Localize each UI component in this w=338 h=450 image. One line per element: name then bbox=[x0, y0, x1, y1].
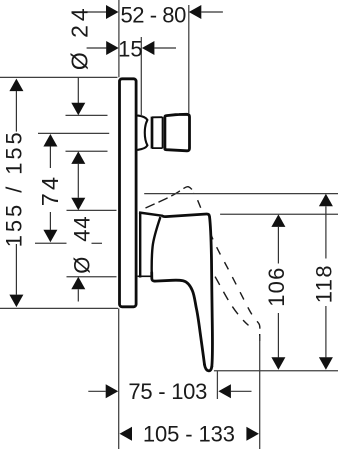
sleeve front cone edge bbox=[152, 217, 161, 273]
lever silhouette (hides dashed lines behind solid handle) bbox=[138, 212, 212, 370]
dimension 106 bbox=[264, 214, 289, 369]
ext line sleeve dia bottom bbox=[67, 276, 117, 278]
svg-text:106: 106 bbox=[264, 266, 289, 306]
dimension 52-80 bbox=[87, 2, 223, 27]
svg-text:Ø 24: Ø 24 bbox=[66, 4, 92, 70]
svg-text:105 - 133: 105 - 133 bbox=[143, 422, 235, 447]
arrow left 15 bbox=[87, 47, 107, 49]
dimension 118 bbox=[311, 194, 336, 370]
dashed raised-lever grip inner edge bbox=[211, 270, 249, 326]
dashed raised-lever front edge descending bbox=[194, 192, 260, 341]
dimension 15 bbox=[87, 37, 176, 62]
ext line raised tip vertical bbox=[259, 336, 261, 449]
arrow left 52-80 bbox=[87, 11, 107, 13]
sleeve top edge bbox=[139, 213, 163, 216]
svg-text:155 / 155: 155 / 155 bbox=[2, 129, 27, 247]
dimension 155/155 bbox=[2, 79, 27, 308]
ext line 74 top bbox=[38, 132, 109, 134]
ext line wall face top bbox=[118, 0, 120, 77]
ext line knob collar bbox=[140, 37, 142, 116]
ext line plate bottom level bbox=[0, 307, 118, 309]
diverter knob collar bbox=[152, 117, 163, 149]
arrow right 15 bbox=[154, 47, 176, 49]
grip inner edge up to block bottom bbox=[155, 280, 205, 364]
svg-text:74: 74 bbox=[37, 174, 63, 207]
handle top edge and front edge down to tip bbox=[163, 214, 212, 367]
ext line wall face bottom bbox=[118, 308, 120, 449]
ext line lever tip vertical bbox=[216, 371, 218, 399]
wall plate (escutcheon, side view) bbox=[120, 79, 137, 307]
dimension 105-133 bbox=[120, 422, 259, 447]
diverter knob neck (trumpet) bbox=[138, 116, 147, 150]
grip tip hook bbox=[205, 365, 212, 371]
dimension dia 24 arrows bbox=[71, 77, 85, 301]
diverter knob body bbox=[165, 114, 190, 151]
svg-text:15: 15 bbox=[118, 37, 142, 62]
ext line knob front bbox=[188, 5, 190, 113]
svg-text:118: 118 bbox=[311, 264, 336, 303]
ext line knob dia top bbox=[66, 114, 108, 116]
ext line knob dia bottom bbox=[66, 150, 108, 152]
ext line sleeve dia top bbox=[67, 209, 117, 211]
dashed raised-lever back edge with apex bbox=[146, 187, 194, 208]
dimension 75-103 bbox=[88, 379, 251, 404]
svg-text:Ø 44: Ø 44 bbox=[69, 215, 94, 273]
block bottom corner bbox=[152, 273, 155, 282]
lever handle block and grip bbox=[152, 214, 213, 371]
svg-text:52 - 80: 52 - 80 bbox=[121, 2, 187, 27]
ext line lever tip level bbox=[214, 370, 338, 372]
dimension 74 bbox=[37, 134, 63, 242]
sleeve bottom edge bbox=[138, 275, 151, 277]
ext line raised lever top bbox=[144, 193, 338, 195]
ext line plate top level bbox=[0, 76, 118, 78]
valve sleeve band bbox=[138, 212, 163, 277]
ext line 74 bottom broken bbox=[35, 242, 67, 244]
ext line lever top bbox=[220, 213, 338, 215]
arrow right 52-80 bbox=[201, 11, 223, 13]
svg-text:75 - 103: 75 - 103 bbox=[128, 379, 207, 404]
